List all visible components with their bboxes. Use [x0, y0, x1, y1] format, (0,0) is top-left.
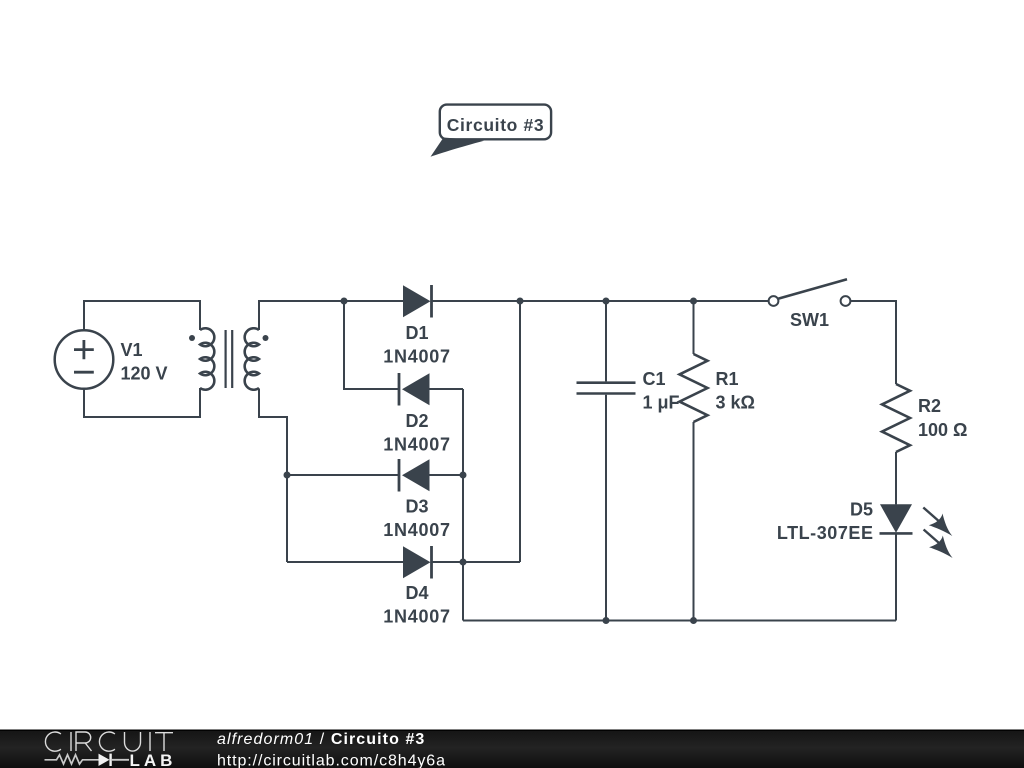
svg-text:3 kΩ: 3 kΩ — [716, 393, 755, 413]
LED D5 — [880, 504, 913, 620]
R2 labels — [918, 396, 967, 440]
svg-text:D2: D2 — [405, 411, 428, 431]
wire V1 bottom loop — [84, 388, 200, 417]
wire V1 top loop — [84, 301, 200, 331]
svg-text:R2: R2 — [918, 396, 941, 416]
svg-text:1N4007: 1N4007 — [383, 435, 451, 455]
D1 labels — [383, 323, 451, 367]
D5 labels — [777, 500, 874, 544]
wire node B to D3 cathode — [287, 474, 398, 476]
V1 labels — [121, 340, 168, 383]
resistor R2 — [882, 384, 910, 504]
D5 light arrow 1 — [923, 508, 952, 537]
junction node A (rail / D1-D2) — [341, 298, 348, 305]
voltage source V1 — [55, 330, 114, 389]
wire D1 cathode to top rail — [432, 300, 521, 302]
wire drop from top rail to D4 row — [519, 301, 521, 562]
CircuitLab logo resistor — [45, 755, 99, 764]
polarity dot secondary — [263, 335, 269, 341]
R1 labels — [716, 369, 755, 413]
resistor R1 — [680, 301, 708, 621]
svg-text:LTL-307EE: LTL-307EE — [777, 523, 874, 543]
annotation bubble "Circuito #3" — [431, 105, 552, 157]
CircuitLab logo diode — [99, 754, 130, 766]
svg-text:alfredorm01 / Circuito #3: alfredorm01 / Circuito #3 — [217, 731, 425, 748]
C1 labels — [643, 369, 680, 413]
svg-text:100 Ω: 100 Ω — [918, 420, 967, 440]
wire secondary bottom to node B — [259, 389, 287, 563]
wire bottom rail — [463, 620, 896, 622]
svg-text:D5: D5 — [850, 500, 873, 520]
footer bar — [0, 730, 1024, 768]
svg-text:R1: R1 — [716, 369, 739, 389]
diode D1 — [403, 285, 432, 318]
wire right riser (D2 to bottom rail) — [462, 389, 464, 621]
junction node (rail / C1 top) — [603, 298, 610, 305]
junction node (right riser / D3) — [460, 472, 467, 479]
wire top rail to switch — [520, 300, 769, 302]
svg-text:SW1: SW1 — [790, 310, 829, 330]
junction node (bottom rail / C1) — [603, 617, 610, 624]
wire D2 anode to right riser — [430, 388, 464, 390]
svg-text:1N4007: 1N4007 — [383, 346, 451, 366]
junction node (right riser / D4) — [460, 559, 467, 566]
svg-text:120 V: 120 V — [121, 363, 168, 383]
junction node (rail / D4 drop) — [517, 298, 524, 305]
svg-text:D3: D3 — [405, 497, 428, 517]
wire secondary top to node A — [259, 301, 344, 330]
wire node A down to D2 — [344, 301, 398, 389]
diode D3 — [399, 459, 430, 492]
diode D2 — [399, 373, 430, 406]
D2 labels — [383, 411, 451, 455]
transformer T1 secondary coil — [245, 328, 259, 390]
svg-text:C1: C1 — [643, 369, 666, 389]
svg-text:LAB: LAB — [130, 751, 177, 768]
svg-text:V1: V1 — [121, 340, 143, 360]
wire node A to D1 anode — [344, 300, 404, 302]
junction node (bottom rail / R1) — [690, 617, 697, 624]
junction node (rail / R1 top) — [690, 298, 697, 305]
svg-text:1 μF: 1 μF — [643, 393, 680, 413]
D3 labels — [383, 497, 451, 541]
wire node B bottom to D4 anode — [287, 561, 404, 563]
svg-text:D4: D4 — [405, 583, 428, 603]
D4 labels — [383, 583, 451, 627]
switch SW1 — [769, 279, 851, 306]
transformer T1 primary coil — [200, 328, 214, 390]
D5 light arrow 2 — [924, 530, 953, 559]
junction node B (left riser / D3) — [284, 472, 291, 479]
svg-text:http://circuitlab.com/c8h4y6a: http://circuitlab.com/c8h4y6a — [217, 753, 446, 768]
wire D3 anode to right riser — [430, 474, 464, 476]
wire D4 cathode to right drop — [432, 561, 521, 563]
wire switch to R2 — [850, 301, 896, 384]
transformer T1 core — [226, 330, 233, 388]
capacitor C1 — [577, 301, 636, 621]
polarity dot primary — [189, 335, 195, 341]
svg-text:1N4007: 1N4007 — [383, 520, 451, 540]
svg-text:1N4007: 1N4007 — [383, 606, 451, 626]
svg-text:Circuito #3: Circuito #3 — [447, 115, 545, 135]
diode D4 — [403, 546, 432, 579]
CircuitLab logo wordmark CIRCUIT — [45, 732, 173, 751]
svg-text:D1: D1 — [405, 323, 428, 343]
